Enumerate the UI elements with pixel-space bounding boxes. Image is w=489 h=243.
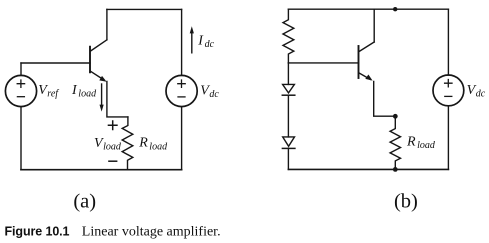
label plus V_load bbox=[108, 120, 118, 130]
wire: between diodes bbox=[287, 95, 289, 137]
wire: Vdc (a) bottom lead bbox=[181, 107, 183, 170]
Vref plus sign bbox=[17, 80, 24, 87]
diode D1 cathode bar bbox=[282, 94, 295, 96]
svg-text:dc: dc bbox=[205, 39, 215, 50]
label I_load (current) bbox=[71, 83, 97, 100]
Vdc (b) plus sign bbox=[445, 80, 452, 87]
junction dot emitter node (b) bbox=[393, 114, 398, 119]
svg-text:I: I bbox=[197, 33, 204, 48]
wire: bottom rail (a) bbox=[21, 169, 182, 171]
transistor Q2 emitter arrowhead bbox=[365, 75, 372, 81]
wire: Vdc (b) bottom lead bbox=[447, 106, 449, 170]
svg-text:load: load bbox=[103, 141, 122, 152]
wire: circuit (b) top rail bbox=[288, 8, 448, 10]
junction dot top rail (b) bbox=[393, 7, 397, 11]
Vdc (b) minus sign bbox=[445, 95, 452, 97]
diode D2 cathode bar bbox=[282, 147, 295, 149]
wire: bottom rail (b) bbox=[288, 168, 448, 170]
wire: circuit (a) top rail bbox=[107, 8, 182, 10]
svg-text:dc: dc bbox=[209, 89, 219, 100]
label I_dc bbox=[197, 33, 214, 50]
resistor R_load (b) bbox=[390, 116, 400, 169]
transistor Q1 emitter arrowhead bbox=[99, 76, 106, 82]
resistor R1 (b) top left bbox=[283, 9, 294, 63]
label minus V_load bbox=[108, 160, 117, 162]
wire: Q2 collector lead up bbox=[373, 9, 375, 42]
current arrow I_load bbox=[101, 84, 103, 106]
svg-text:Linear voltage amplifier.: Linear voltage amplifier. bbox=[82, 225, 221, 240]
svg-text:load: load bbox=[78, 89, 97, 100]
transistor Q1 collector diagonal bbox=[91, 40, 107, 51]
svg-text:I: I bbox=[71, 83, 78, 98]
wire: D2 to bottom rail bbox=[287, 148, 289, 169]
source Vref circle bbox=[5, 75, 36, 106]
wire: Vref top lead bbox=[20, 63, 22, 75]
source Vdc (a) circle bbox=[166, 75, 197, 106]
transistor Q2 emitter diagonal bbox=[359, 73, 370, 79]
label Vdc (a) bbox=[200, 83, 219, 100]
wire: base wire (a) from Vref to Q1 bbox=[21, 62, 90, 64]
svg-text:(a): (a) bbox=[73, 191, 96, 213]
junction dot bottom rail (b) bbox=[393, 167, 398, 172]
transistor Q2 collector diagonal bbox=[359, 42, 374, 52]
label Vref bbox=[38, 83, 59, 100]
diode D1 triangle bbox=[283, 84, 295, 93]
Vdc (a) plus sign bbox=[178, 80, 185, 87]
wire: left branch to diode D1 bbox=[287, 63, 289, 85]
svg-text:dc: dc bbox=[476, 89, 486, 100]
wire: emitter down and jog right (a) bbox=[107, 82, 128, 117]
Vdc (a) minus sign bbox=[178, 96, 185, 98]
transistor Q1 emitter diagonal bbox=[91, 71, 105, 80]
transistor Q2 base bar bbox=[358, 46, 360, 78]
Vref minus sign bbox=[17, 96, 24, 98]
svg-text:(b): (b) bbox=[394, 191, 418, 213]
wire: base wire (b) bbox=[288, 62, 358, 64]
diode D2 triangle bbox=[283, 137, 295, 146]
svg-text:load: load bbox=[149, 141, 168, 152]
svg-text:Figure 10.1: Figure 10.1 bbox=[5, 225, 70, 239]
svg-text:ref: ref bbox=[47, 89, 59, 100]
label Vdc (b) bbox=[467, 83, 486, 100]
wire: collector lead up (a) bbox=[106, 9, 108, 39]
source Vdc (b) circle bbox=[433, 75, 464, 106]
wire: Vdc (a) top lead bbox=[181, 9, 183, 75]
resistor R_load (a) bbox=[122, 117, 133, 170]
wire: Vdc (b) top lead bbox=[447, 9, 449, 75]
svg-text:R: R bbox=[138, 136, 148, 151]
svg-text:R: R bbox=[406, 134, 416, 149]
wire: Vref bottom lead bbox=[20, 107, 22, 170]
transistor Q1 base bar bbox=[89, 47, 91, 73]
current arrow I_dc bbox=[191, 32, 193, 53]
label V_load bbox=[94, 136, 122, 153]
wire: Q2 emitter down and right to node bbox=[374, 82, 396, 117]
svg-text:load: load bbox=[417, 140, 436, 151]
label R_load (a) bbox=[138, 136, 168, 153]
label R_load (b) bbox=[406, 134, 436, 151]
